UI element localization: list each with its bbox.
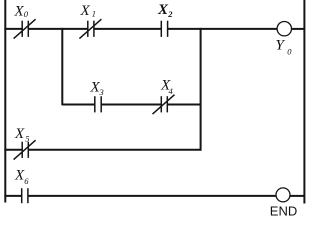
label X0 xyxy=(14,4,29,20)
svg-text:4: 4 xyxy=(169,86,174,96)
contact X5 (NC) xyxy=(14,140,36,159)
label X1 xyxy=(80,3,97,19)
coil Y0 xyxy=(277,22,291,36)
contact X4 (NC) xyxy=(153,95,175,114)
contact X3 (NO) xyxy=(95,96,101,112)
label X6 xyxy=(14,168,29,187)
svg-text:X: X xyxy=(80,3,91,19)
wire END coil to right rail xyxy=(290,195,305,197)
svg-text:X: X xyxy=(14,126,25,142)
contact X0 (NC) xyxy=(14,19,36,38)
svg-text:6: 6 xyxy=(24,176,29,186)
wire branch start to X3 xyxy=(62,104,95,106)
wire X4 to junction vertical xyxy=(167,104,200,106)
wire X6 to END coil xyxy=(28,195,276,197)
wire rung1 rail to X0 xyxy=(4,28,22,30)
svg-text:Y: Y xyxy=(276,38,286,54)
coil END xyxy=(276,188,290,202)
wire junction vertical right xyxy=(200,28,202,151)
svg-text:2: 2 xyxy=(167,9,173,19)
wire X5 to junction xyxy=(28,149,201,151)
label Y0 xyxy=(276,38,293,57)
label X2 xyxy=(157,2,173,19)
contact X6 (NO) xyxy=(22,188,28,203)
contact X2 (NO) xyxy=(161,21,167,37)
svg-text:X: X xyxy=(157,2,169,18)
wire branch vertical left xyxy=(61,28,63,105)
label X5 xyxy=(14,126,29,144)
right rail xyxy=(303,0,305,204)
wire rung3 rail to X5 xyxy=(4,149,22,151)
wire rung4 rail to X6 xyxy=(4,195,21,197)
svg-text:0: 0 xyxy=(24,9,29,19)
wire X3 to X4 xyxy=(101,104,161,106)
label X3 xyxy=(90,80,104,98)
wire coil Y0 to right rail xyxy=(292,28,305,30)
svg-text:1: 1 xyxy=(92,9,96,19)
svg-text:0: 0 xyxy=(287,47,292,57)
contact X1 (NC) xyxy=(79,19,101,38)
wire X1 to X2 xyxy=(94,28,161,30)
wire X2 to coil Y0 xyxy=(168,28,278,30)
label X4 xyxy=(160,78,174,97)
svg-text:3: 3 xyxy=(99,87,104,97)
svg-text:END: END xyxy=(270,203,297,218)
svg-text:5: 5 xyxy=(25,134,29,144)
wire X0 to X1 xyxy=(28,28,88,30)
left rail xyxy=(4,0,6,203)
